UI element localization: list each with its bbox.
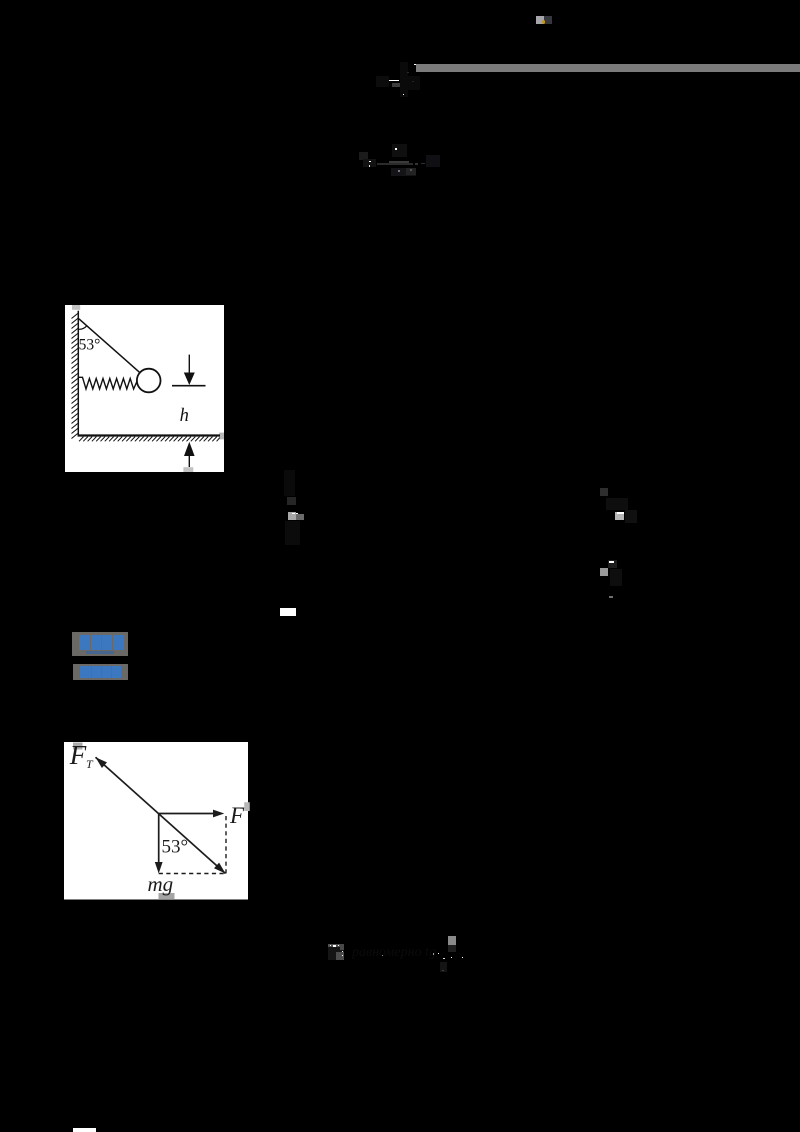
up arrowhead: [184, 441, 195, 455]
F arrowhead: [213, 809, 224, 817]
ball: [137, 368, 161, 392]
favicon icon: gray square: [536, 16, 544, 24]
main diagonal line: [95, 757, 225, 873]
equation 1 white dot: [403, 94, 405, 96]
svg-text:F: F: [68, 742, 86, 770]
53 degree arc: [79, 325, 87, 329]
handle right: [219, 432, 224, 439]
svg-text:53°: 53°: [79, 336, 101, 353]
handle bottom: [158, 893, 174, 899]
arrowhead diagonal bottom-right: [214, 862, 225, 873]
mg arrow shaft: [157, 813, 159, 862]
handle top-left: [73, 742, 83, 749]
diagram 2: force diagram: [64, 742, 250, 900]
string from wall anchor to ball: [79, 318, 140, 372]
h reference line: [172, 384, 206, 386]
handle right: [244, 802, 250, 811]
h down arrowhead: [184, 372, 195, 385]
spring zigzag: [78, 377, 137, 389]
cluster E3 (mid-left equation fragment): [284, 470, 295, 496]
dashed vertical: [225, 816, 227, 874]
wall hatching: [72, 313, 79, 439]
arrowhead F_T (up-left): [95, 757, 106, 768]
gray divider bar top right: [416, 64, 800, 72]
equation 1 gray denominator patch: [392, 83, 400, 87]
cluster E5 (right equation fragment 2): [608, 560, 617, 568]
equation 2 fraction bar: [377, 163, 414, 165]
up arrow below floor shaft: [188, 453, 190, 467]
answer tag 2: blue text blob: [80, 666, 121, 679]
faint words: [352, 945, 436, 959]
diagram 1 white panel: [65, 305, 224, 472]
handle bottom: [183, 467, 193, 472]
svg-text:mg: mg: [147, 872, 173, 896]
option line text (faint): [328, 944, 344, 960]
dashed horizontal: [158, 872, 225, 874]
equation 1 faint cluster: [400, 62, 408, 97]
handle top-left: [72, 305, 80, 310]
bottom cut-off white panel: [73, 1128, 96, 1132]
mg arrowhead: [154, 862, 162, 874]
equation 2 denominator blob: [391, 168, 416, 176]
option fraction fragment: [448, 936, 456, 945]
answer tag 1: blue text blob: [79, 635, 124, 651]
white speck at bar left tip: [414, 64, 416, 65]
h down arrow shaft: [188, 354, 190, 374]
white rect mid page: [280, 608, 296, 616]
equation 2 white dots: [395, 148, 397, 150]
answer tag 2: gray bg: [73, 664, 128, 680]
svg-text:F: F: [229, 802, 245, 827]
diagram 1: spring-ball on wall: [65, 305, 225, 472]
svg-text:53°: 53°: [161, 836, 188, 857]
cluster E4 (right equation fragment): [600, 488, 608, 496]
answer tag 1: gray bg: [72, 632, 128, 656]
floor line: [78, 434, 220, 436]
F arrow shaft: [158, 812, 214, 814]
diagram 2 white panel: [64, 742, 248, 900]
floor hatching: [79, 436, 220, 441]
favicon icon: dark square: [544, 16, 552, 24]
svg-text:h: h: [180, 406, 189, 426]
wall line: [77, 310, 79, 435]
equation 2 faint cluster: [359, 152, 369, 160]
favicon icon: yellow dot: [542, 20, 546, 24]
equation 1 white fraction dash: [389, 80, 399, 82]
